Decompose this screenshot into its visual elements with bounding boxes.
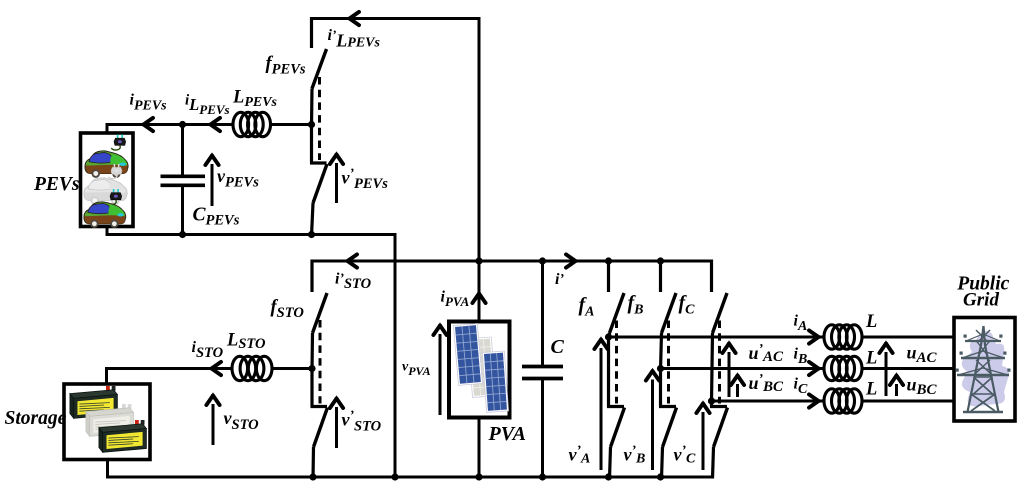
svg-text:PVA: PVA [488, 423, 526, 445]
svg-text:Grid: Grid [963, 290, 999, 311]
svg-text:i’: i’ [555, 271, 564, 288]
svg-text:L: L [865, 349, 877, 369]
svg-text:L: L [865, 312, 877, 332]
svg-text:PEVs: PEVs [33, 174, 80, 195]
svg-text:C: C [551, 336, 565, 358]
svg-text:L: L [865, 380, 877, 400]
svg-text:Storage: Storage [5, 408, 67, 429]
